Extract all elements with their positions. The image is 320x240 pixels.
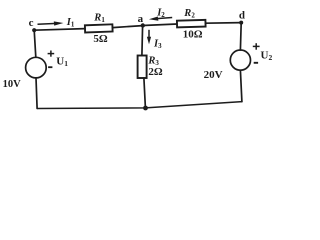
wire U1 to bottom corner <box>36 78 37 109</box>
node c <box>32 28 36 32</box>
resistor R3 <box>138 56 147 79</box>
svg-text:20V: 20V <box>204 69 223 81</box>
svg-text:5Ω: 5Ω <box>93 33 108 45</box>
svg-text:R3: R3 <box>147 55 159 66</box>
svg-text:d: d <box>239 9 245 21</box>
svg-text:U2: U2 <box>261 49 273 62</box>
svg-text:c: c <box>29 17 34 29</box>
bottom wire left segment <box>37 102 242 109</box>
current arrow I1 <box>38 22 58 25</box>
current arrow I3 <box>148 30 150 40</box>
wire d down to U2 <box>239 23 242 50</box>
wire node a down to R3 <box>141 26 144 56</box>
svg-text:I2: I2 <box>156 7 165 18</box>
resistor R2 <box>177 20 206 27</box>
wire c to R1 <box>34 29 85 31</box>
svg-text:10Ω: 10Ω <box>183 28 203 40</box>
wire R1 to node a <box>113 26 143 28</box>
node d <box>239 21 243 25</box>
wire c down to U1 <box>34 30 36 57</box>
wire R3 to bottom junction <box>144 78 146 108</box>
svg-text:10V: 10V <box>3 79 22 90</box>
svg-text:R1: R1 <box>93 13 105 24</box>
wire node a to R2 <box>143 24 177 26</box>
wire R2 to node d <box>206 22 242 25</box>
svg-text:I3: I3 <box>153 38 162 49</box>
plus sign U1 <box>48 51 55 57</box>
node a <box>141 23 145 27</box>
voltage source U1 <box>26 57 47 78</box>
svg-text:U1: U1 <box>56 55 68 68</box>
resistor R1 <box>85 24 113 32</box>
current arrow I2 <box>155 18 172 19</box>
svg-text:I1: I1 <box>66 17 75 28</box>
svg-text:a: a <box>138 13 144 25</box>
voltage source U2 <box>230 50 250 70</box>
wire U2 to bottom corner <box>240 70 242 102</box>
plus sign U2 <box>253 43 260 50</box>
minus sign U2 <box>254 62 258 64</box>
minus sign U1 <box>48 66 52 68</box>
svg-text:2Ω: 2Ω <box>148 66 163 78</box>
bottom junction node <box>143 106 148 111</box>
svg-text:R2: R2 <box>183 8 195 19</box>
